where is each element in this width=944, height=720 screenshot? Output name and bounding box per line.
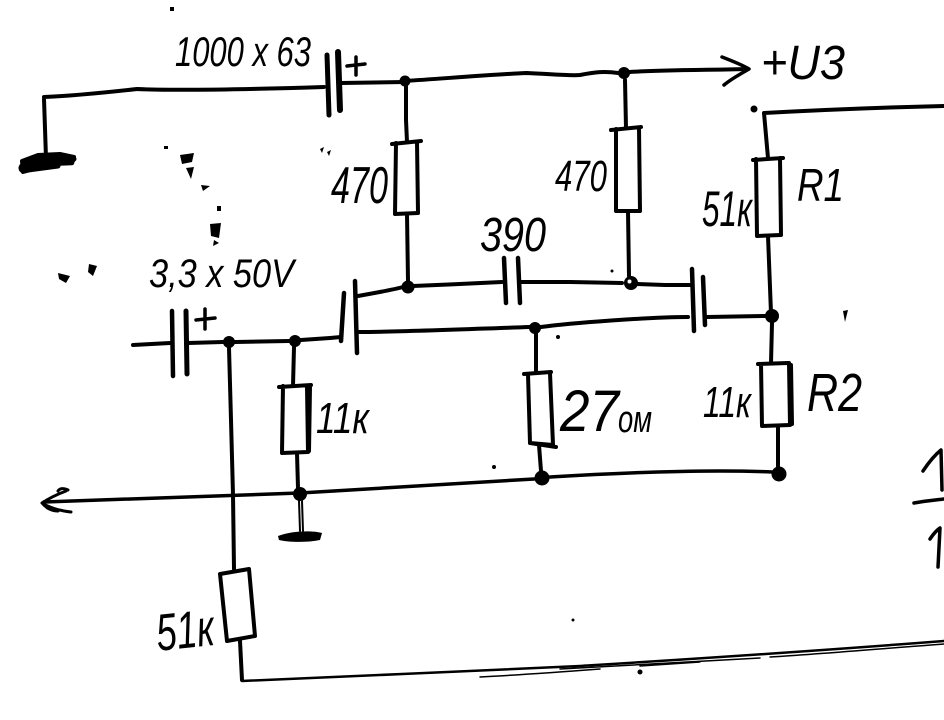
value label 390 — [480, 209, 546, 262]
transistor VT1 left bar — [341, 293, 344, 341]
wire 470 first to node J1 — [407, 214, 408, 281]
transistor VT2 right plate to J3 wire — [707, 316, 765, 317]
node J8 — [223, 336, 235, 348]
transistor VT1 right bar — [355, 281, 357, 353]
wire input top from ground to C1 — [44, 87, 324, 158]
svg-text:+U3: +U3 — [761, 37, 845, 90]
ink speckles — [58, 7, 848, 675]
fraction mark right edge denominator — [930, 528, 940, 567]
svg-text:1000 x 63: 1000 x 63 — [175, 28, 311, 75]
label 27ohm — [559, 379, 652, 444]
wire J0 to node J0b — [405, 72, 618, 81]
wire J7 to transistor VT1 base bar — [301, 337, 341, 340]
fraction mark right edge numerator — [923, 450, 942, 490]
wire J0 to resistor 470 first — [406, 85, 407, 142]
svg-text:51к: 51к — [702, 181, 754, 237]
label R1 — [797, 159, 844, 211]
resistor 11k left — [279, 385, 311, 453]
wire VT1 emitter line to node Ja — [359, 327, 529, 332]
wire J0b to arrow — [630, 69, 748, 72]
node Jb — [535, 471, 550, 486]
resistor 470 first — [392, 141, 421, 214]
wire 11k to node J6 — [297, 453, 298, 488]
wire J3 to R2 — [771, 323, 772, 363]
wire C2 to node J8 — [188, 342, 223, 343]
resistor R1 51k — [753, 158, 783, 236]
wire J1 to capacitor C3 390 — [413, 282, 502, 286]
bottom long wire — [242, 641, 944, 681]
value label 3.3x50V — [149, 252, 297, 296]
transistor VT2 left bar — [692, 269, 694, 331]
arrowhead +U3 — [722, 57, 749, 85]
wire C3 to ring node J2 — [521, 282, 622, 283]
label 51k of R1 — [702, 181, 754, 237]
long output wire with arrow — [44, 471, 772, 502]
transistor VT2 right bar — [703, 277, 705, 325]
capacitor C2 3.3x50V left stub wire — [133, 343, 170, 345]
svg-text:3,3 x 50V: 3,3 x 50V — [149, 252, 297, 296]
label 470 first — [331, 157, 388, 215]
wire Ja to transistor VT2 — [541, 317, 688, 327]
label 51k bottom — [153, 599, 218, 663]
wire J8 down to 51k bottom — [229, 348, 234, 569]
resistor 470 second — [611, 127, 641, 211]
wire Ja to 27ohm — [534, 334, 538, 373]
wire 51k to bottom line — [240, 641, 242, 680]
wire J2 to transistor VT2 — [637, 284, 690, 285]
svg-text:470: 470 — [331, 157, 388, 215]
wire top right to R1 — [764, 106, 944, 158]
ground stem middle — [299, 501, 303, 531]
svg-text:27: 27 — [559, 379, 621, 444]
svg-text:R1: R1 — [797, 159, 844, 211]
node J7 — [289, 335, 301, 347]
node J6 — [293, 487, 307, 501]
label +U3 — [761, 37, 845, 90]
node Ja — [529, 322, 541, 334]
node J4 — [772, 467, 787, 482]
label 11k left — [316, 394, 371, 443]
bottom long wire double trace — [480, 644, 944, 677]
wire J7 to 11k — [293, 347, 294, 386]
wire J0b to 470 second — [625, 80, 626, 128]
label 11k of R2 — [703, 378, 753, 427]
svg-text:470: 470 — [555, 152, 607, 201]
svg-text:390: 390 — [480, 209, 546, 262]
svg-text:51к: 51к — [153, 599, 218, 663]
label 470 second — [555, 152, 607, 201]
svg-text:11к: 11к — [316, 394, 371, 443]
node J0b — [618, 67, 630, 79]
ground — [22, 154, 74, 172]
node J0 — [400, 76, 411, 87]
resistor 51k bottom — [220, 569, 255, 641]
label R2 — [807, 363, 862, 423]
svg-text:R2: R2 — [807, 363, 862, 423]
capacitor C3 390 — [504, 258, 520, 303]
resistor R2 11k — [758, 363, 792, 426]
plus sign of C2 — [196, 309, 215, 329]
capacitor C1 1000x63 — [327, 52, 340, 115]
ink dot near R1 wire — [751, 106, 758, 113]
wire 470 second to ring node J2 — [628, 211, 629, 276]
fraction bar right edge — [914, 499, 944, 503]
svg-text:ом: ом — [618, 399, 652, 441]
ground middle — [278, 531, 322, 542]
wire C1 to node J0 — [341, 82, 405, 83]
ring node J2 — [611, 270, 639, 291]
value label 1000x63 — [175, 28, 311, 75]
node J3 — [765, 309, 779, 323]
wire 27ohm to node Jb — [539, 445, 541, 471]
plus sign of C1 — [347, 57, 365, 75]
node J1 — [402, 281, 415, 294]
capacitor C2 3.3x50V — [172, 311, 187, 376]
wire VT1 to node J1 — [358, 287, 403, 296]
svg-text:11к: 11к — [703, 378, 753, 427]
arrowhead output — [42, 489, 71, 512]
wire R2 bottom to node J4 — [776, 426, 780, 468]
wire R1 bottom to node J3 — [768, 236, 771, 313]
wire J8 to node J7 — [235, 341, 289, 342]
resistor 27ohm — [524, 372, 556, 447]
